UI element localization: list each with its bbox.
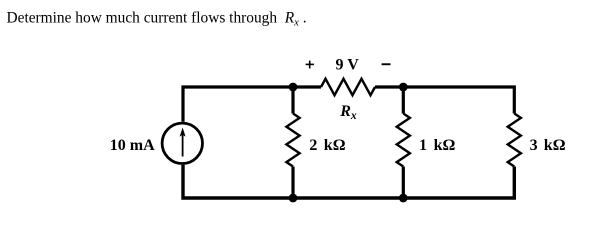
label: Rx designator (339, 103, 357, 122)
wire: 1k resistor to bottom node D (402, 167, 405, 199)
wire: node B to top-right corner and down right rail (403, 87, 514, 114)
resistor R2 2k (vertical zigzag) (286, 114, 299, 167)
title text (7, 10, 307, 29)
svg-text:Determine how much current flo: Determine how much current flows through… (7, 10, 307, 29)
svg-text:Rx: Rx (339, 103, 357, 122)
resistor R4 3k (right zigzag) (508, 114, 521, 167)
wire: right rail bottom to bottom-right corner (403, 167, 514, 199)
label: 9 V value (336, 57, 360, 74)
node D junction dot (399, 194, 408, 203)
current source I1 circle (162, 123, 202, 163)
node B junction dot (399, 83, 408, 92)
label: 3 kOhm value (530, 137, 566, 154)
label: - polarity (382, 63, 391, 65)
wire: node A down to 2k resistor (291, 87, 294, 114)
wire: node A to Rx left lead (293, 85, 321, 88)
wire: node B down to 1k resistor (402, 87, 405, 114)
resistor Rx (horizontal zigzag) (321, 79, 375, 95)
svg-text:2kΩ: 2kΩ (309, 137, 345, 154)
node A junction dot (289, 83, 298, 92)
resistor R3 1k (vertical zigzag) (397, 114, 410, 167)
wire: bottom-left L (left rail bottom to node C) (183, 165, 293, 198)
svg-text:9 V: 9 V (336, 57, 360, 74)
node C junction dot (289, 194, 298, 203)
wire: bottom node C to node D (293, 196, 403, 199)
wire: 2k resistor to bottom node C (291, 167, 294, 199)
svg-text:10 mA: 10 mA (110, 137, 155, 154)
svg-text:1kΩ: 1kΩ (419, 137, 455, 154)
label: + polarity (306, 61, 314, 69)
wire: Rx right lead to node B (375, 85, 403, 88)
wire: top-left L (left rail top to node A) (183, 87, 293, 122)
current source I1 arrow (180, 128, 186, 157)
svg-text:3kΩ: 3kΩ (530, 137, 566, 154)
label: 10 mA source value (110, 137, 155, 154)
label: 1 kOhm value (419, 137, 455, 154)
label: 2 kOhm value (309, 137, 345, 154)
